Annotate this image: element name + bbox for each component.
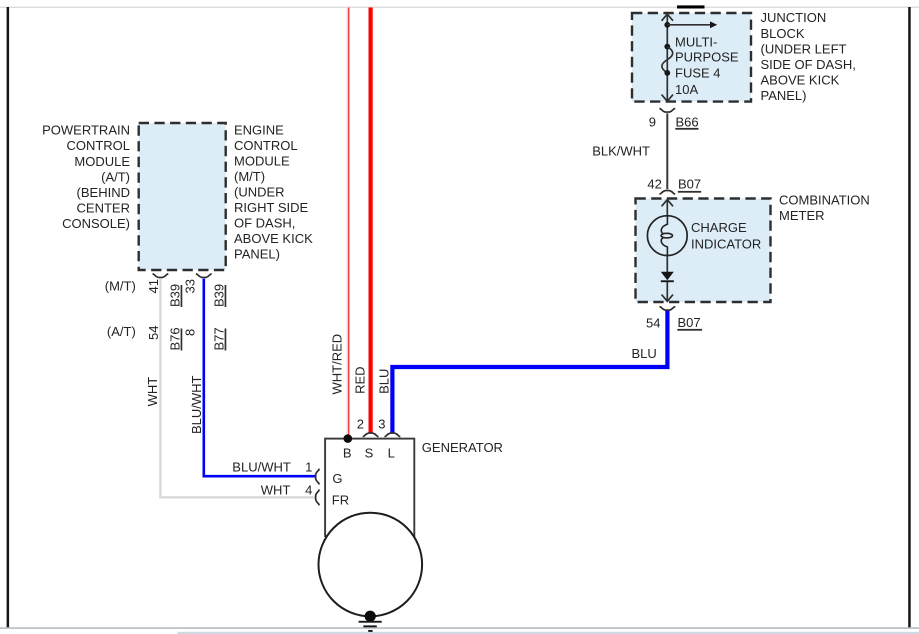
svg-text:2: 2 <box>357 416 364 431</box>
diode <box>661 272 674 282</box>
svg-text:10A: 10A <box>675 82 698 97</box>
svg-text:MODULE: MODULE <box>74 154 130 169</box>
arrow down (meter bottom) <box>662 295 673 302</box>
connector cup pin 3 (L) <box>385 433 401 437</box>
connector cup pin 42 <box>659 191 675 195</box>
connector label B39 pin33 (rotated) <box>211 284 226 307</box>
combination meter box <box>636 199 771 303</box>
svg-text:S: S <box>365 446 374 461</box>
svg-text:B: B <box>343 446 352 461</box>
arrow down (junction block bottom) <box>662 95 673 102</box>
wire WHT/RED (vertical, white half) <box>346 8 348 439</box>
node dot 2 <box>664 44 670 50</box>
label MULTI-PURPOSE FUSE 4 10A <box>675 35 739 97</box>
arrow up (meter top) <box>662 200 673 207</box>
connector label B76 (rotated) <box>167 327 182 350</box>
wire junction block internal <box>666 15 668 101</box>
connector label B39 pin41 (rotated) <box>167 284 182 307</box>
svg-text:54: 54 <box>146 326 161 340</box>
svg-text:CONTROL: CONTROL <box>66 138 130 153</box>
svg-text:B07: B07 <box>678 315 701 330</box>
bottom scrollbar strip <box>178 632 919 634</box>
svg-text:3: 3 <box>378 416 385 431</box>
connector label B07 (lower) <box>677 315 702 331</box>
svg-text:MODULE: MODULE <box>234 154 290 169</box>
svg-text:WHT: WHT <box>261 483 291 498</box>
svg-text:OF DASH,: OF DASH, <box>234 216 295 231</box>
svg-text:CENTER: CENTER <box>77 201 130 216</box>
svg-text:CHARGE: CHARGE <box>691 220 747 235</box>
frame left border <box>7 7 10 628</box>
svg-text:MULTI-: MULTI- <box>675 35 717 50</box>
svg-text:CONTROL: CONTROL <box>234 138 298 153</box>
connector cup pin 2 (S) <box>363 433 379 437</box>
svg-text:BLU/WHT: BLU/WHT <box>232 459 291 474</box>
label ENGINE CONTROL MODULE <box>234 123 313 262</box>
frame top line <box>0 7 919 8</box>
connector label B66 <box>675 114 698 129</box>
svg-text:(BEHIND: (BEHIND <box>77 185 130 200</box>
svg-text:ABOVE KICK: ABOVE KICK <box>234 231 313 246</box>
svg-text:WHT/RED: WHT/RED <box>330 334 345 395</box>
svg-text:(M/T): (M/T) <box>105 279 136 294</box>
label JUNCTION BLOCK <box>761 10 856 103</box>
wire diode to bottom <box>666 282 668 301</box>
label POWERTRAIN CONTROL MODULE <box>42 123 130 232</box>
svg-text:9: 9 <box>649 115 656 130</box>
node dot generator bottom <box>365 611 376 622</box>
label COMBINATION METER <box>779 193 870 223</box>
svg-text:B39: B39 <box>211 284 226 307</box>
wire BLU/WHT (pin33 to G) <box>204 279 316 477</box>
svg-text:ENGINE: ENGINE <box>234 123 284 138</box>
junction block box <box>632 13 751 102</box>
svg-text:RIGHT SIDE: RIGHT SIDE <box>234 200 308 215</box>
svg-text:RED: RED <box>352 366 367 393</box>
svg-text:BLU/WHT: BLU/WHT <box>189 375 204 434</box>
svg-text:ABOVE KICK: ABOVE KICK <box>761 73 840 88</box>
svg-text:(A/T): (A/T) <box>101 169 130 184</box>
svg-text:B39: B39 <box>167 284 182 307</box>
label CHARGE INDICATOR <box>691 220 761 251</box>
frame bottom line <box>0 627 919 629</box>
svg-text:PURPOSE: PURPOSE <box>675 50 739 65</box>
svg-text:GENERATOR: GENERATOR <box>422 440 503 455</box>
generator circle <box>319 513 423 617</box>
cropped black bar top <box>677 5 705 8</box>
wire RED (vertical) <box>369 8 373 433</box>
svg-text:BLOCK: BLOCK <box>761 26 805 41</box>
arrow right (junction block) <box>667 21 717 28</box>
svg-text:B77: B77 <box>211 327 226 350</box>
frame right border <box>908 7 911 628</box>
svg-text:54: 54 <box>646 315 660 330</box>
svg-text:BLK/WHT: BLK/WHT <box>592 143 650 158</box>
node dot B <box>344 434 353 443</box>
ground <box>359 621 382 632</box>
svg-text:B66: B66 <box>676 114 699 129</box>
svg-text:(M/T): (M/T) <box>234 169 265 184</box>
svg-text:COMBINATION: COMBINATION <box>779 193 870 208</box>
svg-text:BLU: BLU <box>632 346 657 361</box>
powertrain control module box <box>139 123 226 270</box>
wire WHT (grey, pin41 to FR) <box>160 279 315 498</box>
svg-text:L: L <box>388 446 395 461</box>
svg-text:FUSE 4: FUSE 4 <box>675 66 721 81</box>
svg-text:(UNDER: (UNDER <box>234 185 285 200</box>
lamp CHARGE INDICATOR <box>647 216 687 256</box>
svg-text:(A/T): (A/T) <box>107 324 136 339</box>
svg-text:JUNCTION: JUNCTION <box>761 10 827 25</box>
wire BLK/WHT <box>666 113 668 189</box>
connector label B07 (upper) <box>678 176 701 192</box>
connector label B77 (rotated) <box>211 327 226 350</box>
wire WHT/RED (vertical, red half) <box>348 8 350 439</box>
svg-text:8: 8 <box>183 329 198 336</box>
wire BLU (meter to generator L) <box>392 311 667 433</box>
svg-text:4: 4 <box>305 483 312 498</box>
fuse F4 (s-curve) <box>662 47 673 73</box>
wire meter internal <box>666 200 668 217</box>
svg-text:PANEL): PANEL) <box>234 247 280 262</box>
svg-text:POWERTRAIN: POWERTRAIN <box>42 123 130 138</box>
connector cup pin 33 <box>196 274 212 278</box>
connector cup pin 54 <box>660 307 676 311</box>
svg-text:INDICATOR: INDICATOR <box>691 236 761 251</box>
svg-text:CONSOLE): CONSOLE) <box>62 216 130 231</box>
svg-text:METER: METER <box>779 208 825 223</box>
svg-text:B76: B76 <box>167 327 182 350</box>
svg-text:1: 1 <box>305 459 312 474</box>
arrow up (junction block top) <box>662 14 673 21</box>
node dot 3 <box>664 70 670 76</box>
svg-text:41: 41 <box>146 279 161 293</box>
svg-text:33: 33 <box>183 279 198 293</box>
svg-text:SIDE OF DASH,: SIDE OF DASH, <box>761 57 856 72</box>
svg-text:B07: B07 <box>678 176 701 191</box>
connector cup pin 4 (FR) <box>316 490 320 506</box>
svg-text:42: 42 <box>647 177 661 192</box>
svg-text:FR: FR <box>332 493 349 508</box>
generator body rect <box>325 439 414 536</box>
connector cup pin 9 <box>659 108 675 112</box>
svg-text:PANEL): PANEL) <box>761 88 807 103</box>
svg-text:G: G <box>332 471 342 486</box>
node dot 1 <box>664 22 670 28</box>
wire lamp to diode <box>666 256 668 273</box>
svg-text:BLU: BLU <box>376 369 391 394</box>
connector cup pin 1 (G) <box>316 469 320 485</box>
connector cup pin 41 <box>153 274 169 278</box>
svg-text:(UNDER LEFT: (UNDER LEFT <box>761 41 847 56</box>
svg-text:WHT: WHT <box>145 377 160 407</box>
